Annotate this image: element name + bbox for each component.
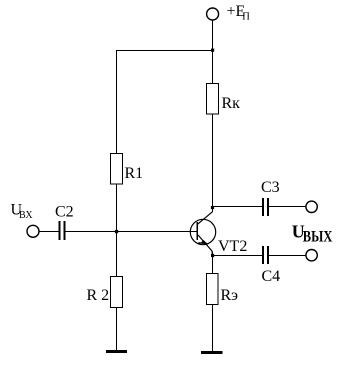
svg-text:C2: C2	[55, 204, 74, 221]
svg-text:Rэ: Rэ	[221, 287, 239, 304]
svg-text:ВХ: ВХ	[19, 210, 33, 221]
svg-text:ВЫХ: ВЫХ	[303, 229, 333, 246]
svg-text:Rк: Rк	[222, 95, 241, 112]
svg-text:VT2: VT2	[218, 238, 247, 255]
svg-text:R1: R1	[125, 165, 144, 182]
svg-text:C4: C4	[262, 268, 281, 285]
svg-text:П: П	[242, 12, 250, 23]
svg-text:C3: C3	[261, 179, 280, 196]
svg-text:R 2: R 2	[87, 287, 110, 304]
